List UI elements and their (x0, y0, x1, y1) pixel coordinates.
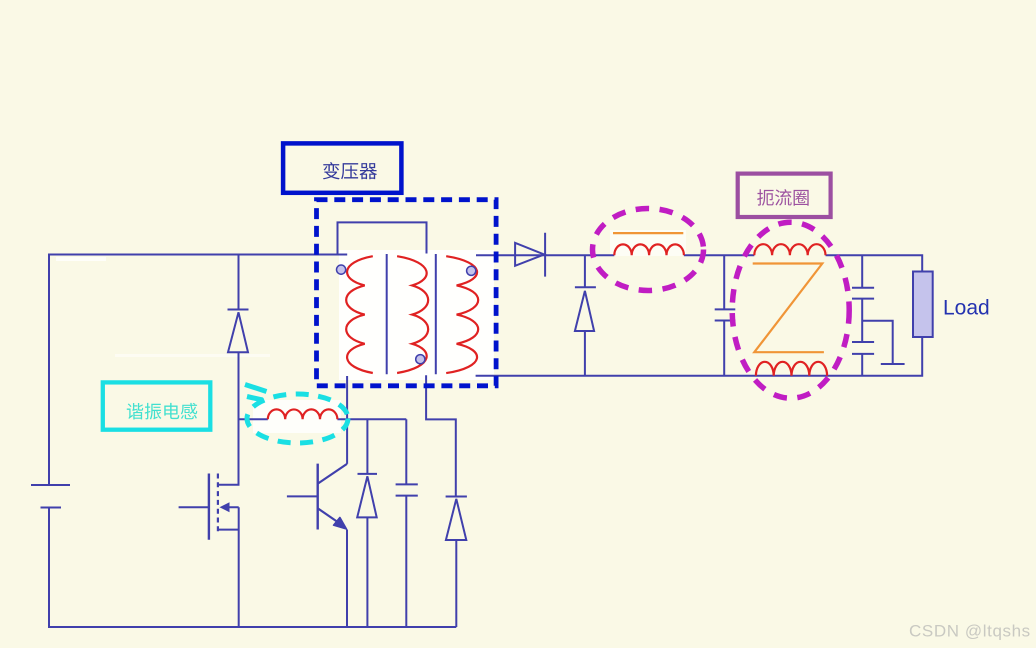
svg-text:Load: Load (943, 297, 990, 320)
svg-text:CSDN @ltqshs: CSDN @ltqshs (909, 622, 1031, 641)
